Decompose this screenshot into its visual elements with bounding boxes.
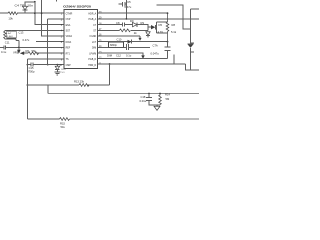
svg-text:C4 TP1 10n: C4 TP1 10n xyxy=(15,4,34,8)
svg-text:0.47u: 0.47u xyxy=(23,38,30,42)
svg-text:C5: C5 xyxy=(127,0,131,4)
VREF arrow down xyxy=(17,50,21,53)
wire top right corner xyxy=(191,8,200,10)
wire box bottom bar xyxy=(5,38,16,40)
capacitor C14 box 4n7 1.6kV xyxy=(7,31,16,38)
wire bus C bottom xyxy=(27,59,59,119)
wire pin9 xyxy=(27,58,64,60)
wire pin2 xyxy=(48,18,64,20)
svg-text:C13: C13 xyxy=(19,31,24,35)
resistor R1 10k xyxy=(8,12,18,15)
svg-text:OZ964/ SSOP20: OZ964/ SSOP20 xyxy=(63,4,91,8)
wire top main horizontal xyxy=(0,12,64,14)
svg-text:C11: C11 xyxy=(5,41,10,45)
svg-text:DIM: DIM xyxy=(107,54,113,58)
svg-text:0.1u: 0.1u xyxy=(1,50,7,54)
svg-text:C15: C15 xyxy=(29,66,34,70)
svg-text:RT1: RT1 xyxy=(66,53,71,55)
svg-text:OVP: OVP xyxy=(66,19,71,21)
wire vertical x47.7 pin2 to pin10 row xyxy=(47,19,49,65)
svg-text:0.47u: 0.47u xyxy=(125,5,132,9)
svg-text:TS: TS xyxy=(66,59,69,61)
svg-text:DIM: DIM xyxy=(92,48,96,50)
node junction at top bracket xyxy=(34,1,36,3)
svg-text:CTMR: CTMR xyxy=(66,13,73,15)
wire top right bracket xyxy=(157,5,191,29)
capacitor C18 xyxy=(148,93,150,95)
resistor R14 5M xyxy=(159,93,161,95)
resistor R13 23k xyxy=(79,84,89,87)
svg-text:0.047u: 0.047u xyxy=(151,51,160,55)
zener D5 4.7V xyxy=(148,26,151,28)
svg-text:VREF: VREF xyxy=(13,51,21,55)
wire branch down xyxy=(47,85,49,94)
svg-text:51k: 51k xyxy=(61,125,66,129)
wire pin6 xyxy=(36,41,64,43)
svg-text:C18: C18 xyxy=(141,95,146,99)
wire pin12 xyxy=(98,57,168,59)
svg-text:R9: R9 xyxy=(141,21,145,25)
pin names right xyxy=(88,12,97,66)
wire ISEN vertical xyxy=(109,64,111,85)
svg-text:R6: R6 xyxy=(26,49,30,53)
resistor R15 51k xyxy=(60,118,70,121)
diode D1 xyxy=(23,6,28,10)
svg-text:PGB_D: PGB_D xyxy=(88,59,96,61)
capacitor C10 plates xyxy=(127,44,129,50)
capacitor C11 xyxy=(4,45,5,49)
svg-text:HDR_D: HDR_D xyxy=(88,65,96,67)
wire pin20 xyxy=(98,12,168,14)
zener D10 to ground xyxy=(57,64,59,66)
wire pin8 xyxy=(24,52,64,54)
diode D7 down xyxy=(146,32,150,36)
svg-text:4.7V: 4.7V xyxy=(158,30,164,34)
svg-text:C7A: C7A xyxy=(153,44,158,48)
svg-text:DIOA: DIOA xyxy=(66,41,72,44)
resistor R6 56k xyxy=(28,52,39,55)
svg-text:CMP: CMP xyxy=(66,65,72,67)
resistor R2 left vertical xyxy=(4,30,6,39)
diode D11 right edge xyxy=(191,43,195,52)
wire box right down to REF row xyxy=(16,39,19,47)
svg-text:R14: R14 xyxy=(165,93,170,97)
pin numbers right xyxy=(99,12,102,65)
ground xyxy=(156,105,158,106)
wire bus B gray xyxy=(48,93,199,95)
test point TP bracket xyxy=(25,2,35,7)
wire pin10 with C15 xyxy=(27,64,64,66)
svg-text:0.1u: 0.1u xyxy=(126,54,132,58)
resistor R8 5.1k xyxy=(166,13,169,42)
pin numbers left xyxy=(59,14,62,67)
wire pin17 resistor R9 2k xyxy=(98,29,149,31)
VREF arrow left pin8 xyxy=(20,51,24,55)
svg-text:C10: C10 xyxy=(117,38,122,42)
node VREF port xyxy=(18,47,20,49)
svg-text:1.6kV: 1.6kV xyxy=(7,36,13,38)
wire pin4 from left cluster xyxy=(5,29,64,31)
svg-text:R13 23k: R13 23k xyxy=(74,80,85,84)
wire pin15 with diode D8 xyxy=(98,41,168,43)
top edge speck xyxy=(55,0,57,1)
svg-text:10k: 10k xyxy=(8,17,13,21)
svg-text:5.1k: 5.1k xyxy=(171,30,177,34)
wire right corner down xyxy=(186,64,200,70)
wire bus A xyxy=(27,84,109,86)
wire REF row pin7 xyxy=(0,46,64,48)
svg-text:4700p: 4700p xyxy=(27,70,35,74)
wire vertical VDDA x41.6 to pin5 xyxy=(42,0,64,36)
capacitor C8 xyxy=(122,23,124,27)
svg-text:C12: C12 xyxy=(116,54,121,58)
wire pin13 with port arrow xyxy=(98,53,144,55)
capacitor C7A 0.047u xyxy=(165,42,171,59)
svg-text:0.01u: 0.01u xyxy=(140,99,147,103)
wire vertical to pin3 xyxy=(35,2,64,25)
svg-text:D9: D9 xyxy=(130,19,134,23)
svg-text:VDDA: VDDA xyxy=(66,35,73,38)
svg-text:REF: REF xyxy=(66,48,71,50)
svg-text:LPWM: LPWM xyxy=(89,53,96,55)
svg-text:LCT: LCT xyxy=(92,42,97,44)
wire pin11 to right bracket xyxy=(98,63,186,65)
svg-text:HDR_A: HDR_A xyxy=(88,12,96,15)
svg-text:56k: 56k xyxy=(32,49,37,53)
wire pin19 xyxy=(98,18,200,20)
wire pin18 with C8 and diode D9 xyxy=(98,25,149,31)
svg-text:R8: R8 xyxy=(172,23,176,27)
wire pin14 with 6800p cap xyxy=(98,46,151,48)
svg-text:ENA: ENA xyxy=(66,24,71,27)
capacitor C15 4700p xyxy=(31,63,33,67)
wire pin16 with port arrow xyxy=(98,35,141,37)
capacitor C9 6800p box xyxy=(109,42,124,47)
pin names left xyxy=(66,13,73,66)
svg-text:R15: R15 xyxy=(60,121,65,125)
diode D9 xyxy=(133,22,137,26)
svg-text:6800p: 6800p xyxy=(110,44,118,47)
svg-text:SST: SST xyxy=(66,31,71,33)
svg-text:D5: D5 xyxy=(159,23,163,27)
svg-text:C8: C8 xyxy=(116,21,120,25)
svg-text:PGB_A: PGB_A xyxy=(89,18,97,21)
svg-text:FGND: FGND xyxy=(90,36,97,38)
wire stub x174 xyxy=(173,55,175,65)
